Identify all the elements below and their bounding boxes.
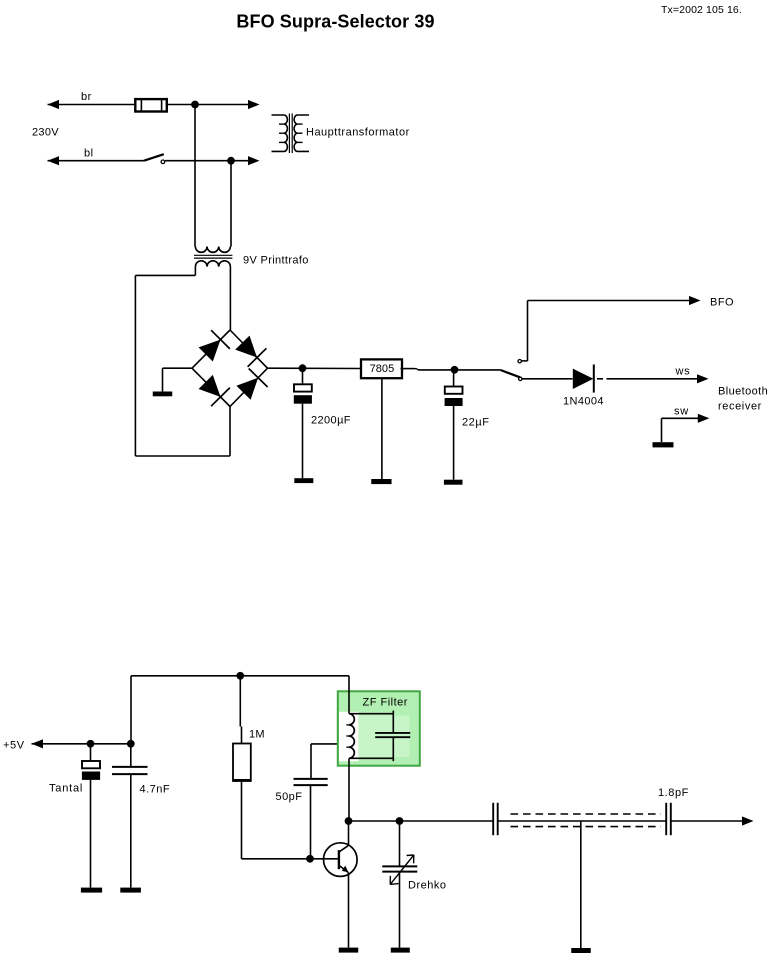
arrow bl right to transformer [248, 156, 260, 165]
bridge diode D1 upper-left [199, 330, 230, 361]
node br junction [191, 101, 199, 109]
arrow br right to transformer [248, 100, 260, 109]
switch S1 blade [144, 154, 164, 161]
label 2200uF [311, 415, 351, 427]
label ZF Filter [363, 697, 408, 709]
svg-text:sw: sw [674, 406, 689, 418]
capacitor C7 Drehko plates [382, 866, 417, 871]
wire ZF top lead [349, 713, 393, 715]
title [236, 11, 434, 31]
label ws [675, 366, 691, 378]
wire fuse to node [166, 104, 249, 106]
wire D5 to ws arrow [597, 378, 698, 380]
transformer T1 primary winding [272, 115, 288, 151]
svg-text:1M: 1M [249, 729, 265, 741]
label br [81, 91, 92, 103]
node Drehko tap [396, 817, 404, 825]
svg-text:BFO: BFO [710, 297, 734, 309]
arrow mains bl left [48, 156, 60, 165]
arrow line out [742, 816, 754, 825]
bridge side left-bottom [192, 368, 230, 406]
arrow mains br left [48, 100, 60, 109]
wire sw [662, 418, 699, 442]
label 4.7nF [140, 784, 171, 796]
ground Q1 emitter [339, 948, 359, 953]
ground C4 [120, 888, 141, 893]
node base [306, 855, 314, 863]
bridge side left-top [192, 330, 230, 368]
node rail R1 [236, 672, 244, 680]
wire ZF bottom lead [349, 757, 393, 759]
wire bridge left to ground [163, 368, 193, 391]
node collector [345, 817, 353, 825]
transformer T1 core [289, 114, 292, 154]
bridge diode D2 upper-right [235, 336, 266, 367]
wire collector line [349, 820, 494, 822]
svg-text:22µF: 22µF [462, 417, 490, 429]
label sw [674, 406, 689, 418]
label 9V Printtrafo [243, 255, 309, 267]
wire br node down to T2 [194, 105, 196, 247]
ground Drehko [391, 948, 410, 953]
resistor R1 1M [233, 744, 251, 782]
wire bl right [165, 160, 250, 162]
capacitor C1 2200uF [294, 368, 312, 478]
switch S2 contact lower [519, 377, 522, 380]
bridge side top-right [230, 330, 268, 368]
capacitor C7 Drehko arrow [390, 855, 414, 884]
label 22uF [462, 417, 490, 429]
label bl [84, 148, 93, 160]
wire BFO riser [527, 301, 529, 361]
transistor Q1 body [324, 843, 358, 877]
arrow BFO [689, 296, 701, 305]
wire rail to R1 [240, 676, 241, 744]
wire Drehko bottom [399, 872, 401, 948]
label 1M [249, 729, 265, 741]
label Haupttransformator [306, 127, 410, 139]
arrow sw [698, 414, 710, 423]
svg-text:2200µF: 2200µF [311, 415, 351, 427]
svg-text:4.7nF: 4.7nF [140, 784, 171, 796]
capacitor C2 22uF [445, 370, 463, 480]
transformer T2 core [194, 255, 232, 258]
svg-text:7805: 7805 [370, 363, 395, 375]
wire switch to D5 [522, 378, 573, 380]
capacitor C6 ZF [375, 711, 410, 762]
wire 7805 out [401, 369, 501, 370]
label 50pF [276, 791, 303, 803]
svg-text:BFO Supra-Selector 39: BFO Supra-Selector 39 [236, 11, 434, 31]
label Drehko [408, 880, 446, 892]
label Tantal [49, 783, 83, 795]
bridge diode D3 lower-left [199, 375, 230, 406]
bridge side bottom-right [230, 368, 268, 406]
capacitor C4 4.7nF [112, 744, 148, 888]
svg-text:Bluetooth: Bluetooth [718, 386, 768, 398]
arrow ws [697, 374, 709, 383]
svg-text:+5V: +5V [3, 740, 25, 752]
capacitor C5 50pF [294, 744, 328, 859]
ZF filter box [338, 691, 420, 765]
wire 7805 gnd pin [381, 378, 383, 479]
node bl junction [227, 157, 235, 165]
transistor Q1 collector [339, 821, 349, 852]
capacitor C8 left plate [493, 803, 498, 835]
transformer T2 secondary winding [195, 261, 230, 267]
wire base [310, 858, 339, 860]
switch S2 blade [501, 370, 521, 377]
svg-text:ZF Filter: ZF Filter [363, 697, 408, 709]
svg-text:9V Printtrafo: 9V Printtrafo [243, 255, 309, 267]
svg-text:br: br [81, 91, 92, 103]
wire bridge to C1 node [268, 367, 362, 369]
regulator U1 7805 [361, 359, 402, 378]
wire +5V horizontal [32, 743, 132, 745]
ground sw [653, 442, 674, 447]
wire 50pF to ZF tap [311, 743, 349, 745]
ground C2 [444, 480, 463, 485]
node 4.7nF tap [127, 740, 135, 748]
wire T2 secondary right [229, 267, 231, 330]
label +5V [3, 740, 25, 752]
label Bluetooth [718, 386, 768, 398]
ground line tap [571, 948, 591, 953]
svg-text:230V: 230V [32, 127, 59, 139]
wire rail left riser [130, 676, 132, 744]
ground 7805 [371, 479, 391, 484]
transistor Q1 emitter [339, 865, 349, 947]
switch S1 contact [161, 160, 165, 164]
bridge diode D4 lower-right [236, 369, 267, 400]
svg-text:50pF: 50pF [276, 791, 303, 803]
wire line inner [498, 820, 667, 822]
wire BFO [528, 300, 690, 302]
wire R1 to base node [242, 781, 311, 859]
arrow +5V [32, 739, 44, 748]
switch S2 contact upper [518, 360, 521, 363]
svg-text:bl: bl [84, 148, 93, 160]
wire +5V rail top [131, 675, 349, 677]
svg-text:1.8pF: 1.8pF [658, 787, 689, 799]
node C2 [451, 366, 459, 374]
wire rail down into ZF box [348, 676, 350, 714]
node Tantal tap [87, 740, 95, 748]
transformer T2 primary winding [195, 247, 230, 253]
wire ZF to collector node [348, 758, 350, 821]
wire line tap to ground [580, 821, 582, 948]
svg-text:Tantal: Tantal [49, 783, 83, 795]
wire bl node down to T2 [230, 161, 232, 247]
diode D5 1N4004 [573, 365, 594, 393]
label BFO [710, 297, 734, 309]
svg-text:Drehko: Drehko [408, 880, 446, 892]
timestamp Tx [661, 4, 742, 16]
transformer T1 secondary winding [294, 115, 309, 151]
wire upper contact to BFO riser [521, 360, 527, 362]
node C1 [299, 364, 307, 372]
wire Drehko top [399, 821, 401, 866]
line shield dashes [511, 814, 661, 827]
label 1N4004 [563, 396, 604, 408]
ground C1 [294, 478, 313, 483]
label 1.8pF [658, 787, 689, 799]
capacitor C3 Tantal [82, 744, 100, 888]
transistor Q1 base bar [338, 850, 340, 869]
inductor L1 ZF coil [346, 714, 354, 759]
svg-text:Tx=2002 105 16.: Tx=2002 105 16. [661, 4, 742, 16]
capacitor C9 1.8pF plates [666, 803, 671, 835]
fuse F1 [135, 99, 167, 111]
svg-text:Haupttransformator: Haupttransformator [306, 127, 410, 139]
ground C3 [81, 888, 102, 893]
label 230V [32, 127, 59, 139]
wire line out [671, 820, 743, 822]
svg-text:receiver: receiver [718, 401, 762, 413]
svg-text:1N4004: 1N4004 [563, 396, 604, 408]
svg-text:ws: ws [675, 366, 691, 378]
wire T2 secondary left [135, 267, 230, 456]
wire bl left [48, 160, 145, 162]
wire br left [48, 104, 136, 106]
ground bridge [153, 392, 173, 397]
label receiver [718, 401, 762, 413]
